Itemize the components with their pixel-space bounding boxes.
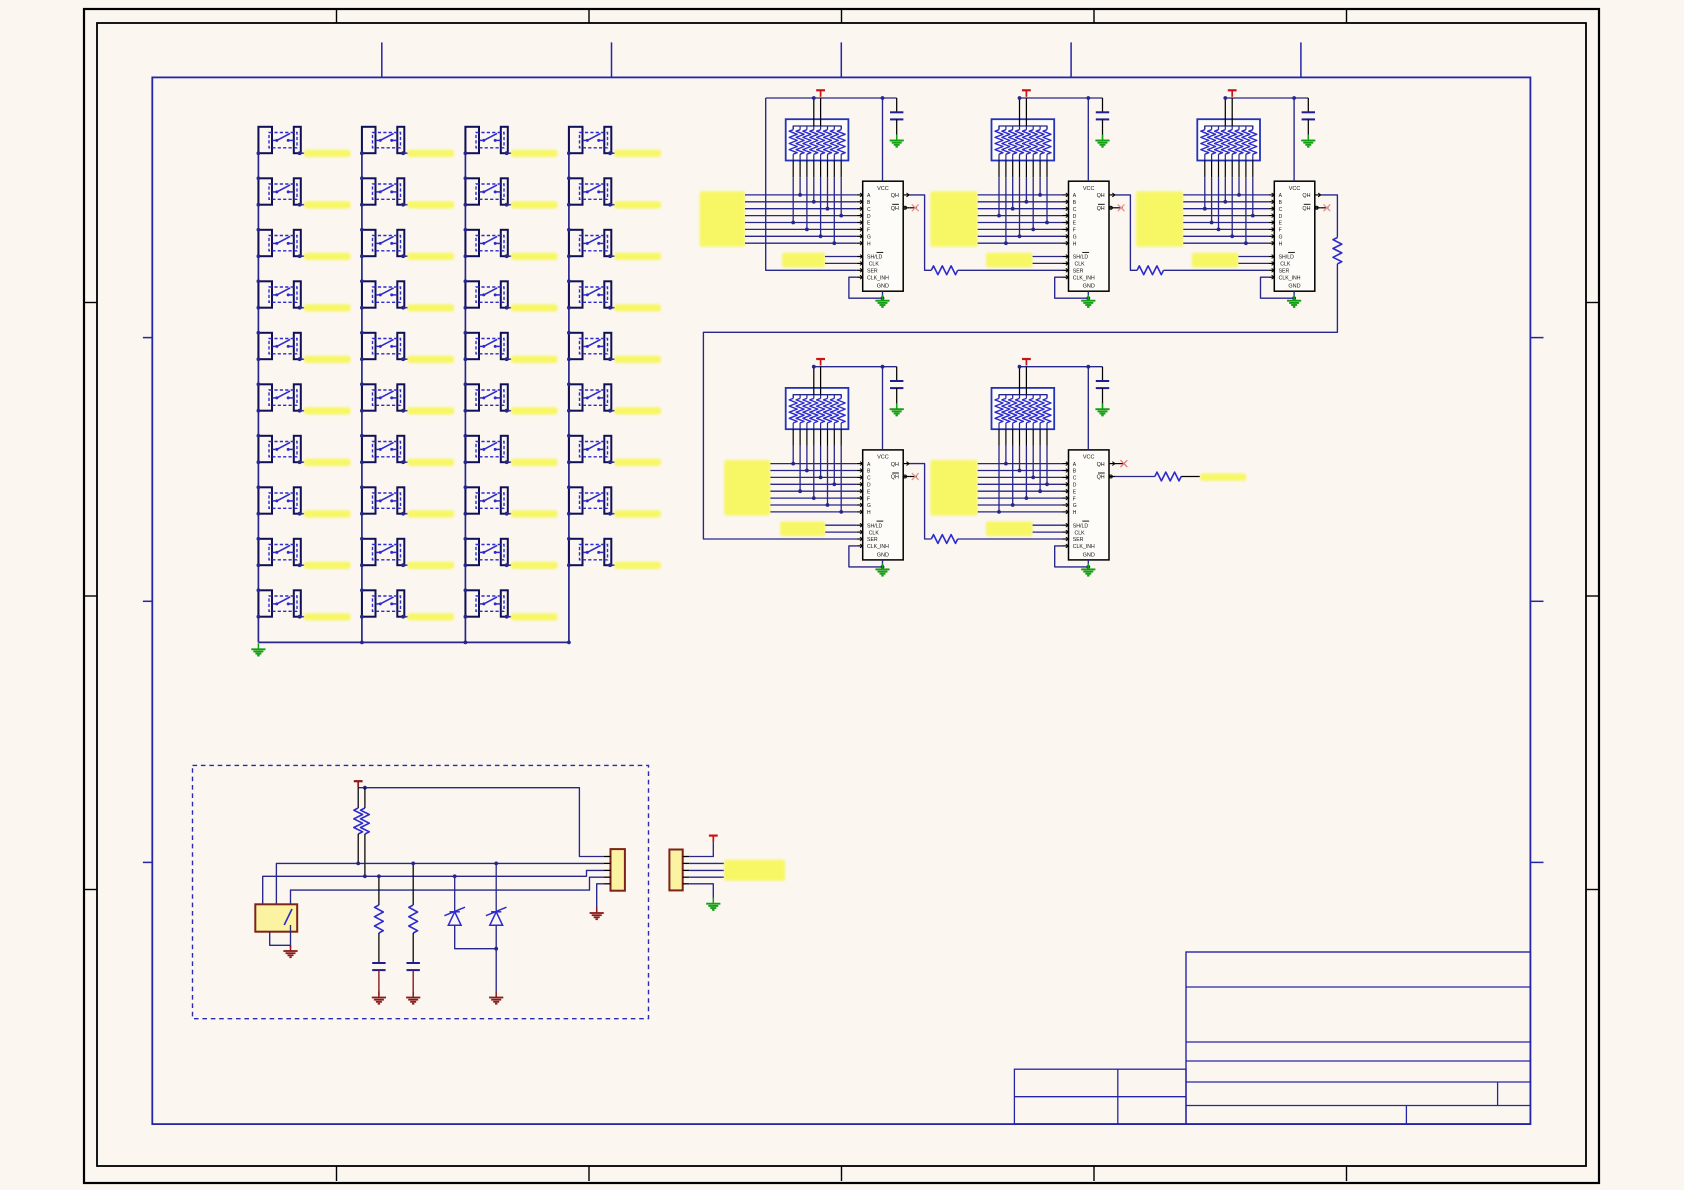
key switch S21 [465,127,507,153]
junction S23 column [464,228,468,258]
wire U5 CLK [1033,531,1063,533]
resistor R9 filter [409,863,418,963]
junction RN2 lead 7 [1038,193,1042,197]
zener D2 [486,863,507,925]
RN1 resistors [789,126,845,161]
ground for C2 [1095,135,1109,147]
VCC rail wire block 1 [766,97,897,99]
junction S14 column [360,279,364,309]
net label row9 col3 [511,562,558,569]
wire U1 QH to R1 [909,195,931,270]
key switch S34 [569,281,611,307]
svg-text:CLK: CLK [869,262,880,268]
wire S35 output [610,358,615,360]
junction D1 D2 anode [494,947,498,951]
key switch S17 [362,436,404,462]
J1 ground lead [596,909,598,912]
wire S21 output [507,152,512,154]
wire R5 to output label [1181,476,1200,478]
svg-text:QH: QH [891,193,899,199]
svg-text:CLK: CLK [869,530,880,536]
wire S14 output [403,307,408,309]
svg-text:C: C [1279,207,1283,213]
svg-text:CLK: CLK [1075,530,1086,536]
resistor R1 [931,266,957,275]
junction R7 bus2 [363,874,367,878]
U5 pin F [1063,496,1069,500]
U4 output labels QH QHbar [891,462,899,481]
top frame zone tick 3 [841,9,843,23]
junction RN1 lead 6 [826,207,830,211]
svg-text:SH/LD: SH/LD [867,255,883,261]
capacitor C4 [890,367,903,410]
junction S28 column [464,485,468,515]
wire S12 output [403,204,408,206]
junction RN5 lead 7 [1038,489,1042,493]
sheet top zone tick 5 [1300,42,1302,77]
resistor R6 pullup [354,788,363,864]
J1 ground wire [597,884,604,909]
power VCC J2 [709,836,718,843]
wire S9 output [300,564,305,566]
junction S34 output [608,306,612,310]
svg-text:QH: QH [891,475,899,481]
key switch S5 [258,333,300,359]
wire J2 clock [689,869,724,871]
U3 VCC pin wire [1293,98,1295,181]
U2 pin D [1063,214,1069,218]
junction S11 output [401,151,405,155]
capacitor C2 [1096,98,1109,141]
junction S9 output [298,563,302,567]
junction S32 column [567,176,571,206]
net label row5 col1 [304,356,351,363]
junction S10 column [257,588,261,618]
RN5 lead 1 wire [998,429,1000,512]
U1 pin CLK [857,262,863,266]
junction RN4 lead 5 [819,476,823,480]
wire S11 output [403,152,408,154]
RN2 lead 8 wire [1046,161,1048,223]
RN2 common bus [999,126,1047,129]
VCC rail wire block 3 [1225,97,1308,99]
svg-text:C: C [1073,476,1077,482]
U2 VCC junction [1086,96,1090,100]
net label row9 col1 [304,562,351,569]
net label row7 col1 [304,459,351,466]
junction R6 bus1 [356,862,360,866]
svg-text:GND: GND [1083,284,1095,290]
net label row4 col4 [615,304,662,311]
shift register U1 body [863,181,904,291]
net labels U4 inputs A-H [724,460,770,516]
U3 pin B [1268,200,1274,204]
net label row9 col4 [615,562,662,569]
key switch S28 [465,487,507,513]
wire U4 SH/LD [825,524,856,526]
U4 CLK_INH feedback wire [849,546,883,567]
junction RN4 lead 2 [798,489,802,493]
junction RN3 lead 4 [1223,200,1227,204]
junction S33 column [567,228,571,258]
junction RN4 lead 1 [791,462,795,466]
U1 pin labels SH/LD CLK SER CLK_INH [867,252,889,281]
wires U4 inputs A-H [770,464,856,512]
wire U1 CLK [825,262,857,264]
svg-text:F: F [867,228,870,234]
junction S27 column [464,434,468,464]
capacitor C6 [372,963,385,995]
junction S5 column [257,331,261,361]
wire S4 output [300,307,305,309]
net labels U1 SH/LD CLK [782,253,825,268]
wire S16 output [403,410,408,412]
top frame zone tick 1 [336,9,338,23]
net label row6 col3 [511,407,558,414]
SW1 bottom pins wire [270,932,291,946]
junction pullup R7 top [363,786,367,790]
U5 output labels QH QHbar [1097,462,1105,481]
junction S3 output [298,254,302,258]
U1 GND junction [881,296,885,300]
U4 pin F [857,496,863,500]
svg-text:H: H [1073,510,1077,516]
junction D1 bus2 [453,874,457,878]
RN4 lead 3 wire [806,429,808,470]
revision table [1014,1069,1186,1124]
RN1 lead 5 wire [820,161,822,237]
VCC rail wire block 5 [1020,366,1103,368]
wire S19 output [403,564,408,566]
title block row lines [1186,987,1530,1124]
resistor R8 filter [375,876,384,963]
wire D1 anode [455,925,497,948]
U1 pin labels A-H [867,193,871,247]
wire S3 output [300,255,305,257]
wire U3 SH/LD [1238,256,1268,258]
U1 pin SH/LD [857,255,863,259]
svg-text:SH/LD: SH/LD [1279,255,1295,261]
net label row7 col3 [511,459,558,466]
U2 pin C [1063,207,1069,211]
wire S5 output [300,358,305,360]
column 4 wire [568,127,570,643]
net label row3 col3 [511,253,558,260]
junction S36 output [608,409,612,413]
key switch S23 [465,230,507,256]
net labels U3 SH/LD CLK [1192,253,1239,268]
no-connect X U2 QHbar [1115,204,1125,211]
key switch S29 [465,539,507,565]
junction S32 output [608,203,612,207]
key switch S19 [362,539,404,565]
sheet top zone tick 1 [381,42,383,77]
ground J2 [706,898,720,910]
wire S33 output [610,255,615,257]
U5 VCC junction [1086,365,1090,369]
net label row10 col3 [511,613,558,620]
RN3 lead 1 wire [1204,161,1206,209]
net label row5 col2 [408,356,455,363]
key switch S32 [569,178,611,204]
svg-text:VCC: VCC [1083,455,1095,461]
svg-text:QH: QH [1302,193,1310,199]
junction RN4 lead 8 [839,510,843,514]
svg-text:C: C [867,207,871,213]
junction S12 output [401,203,405,207]
RN2 lead 1 wire [998,161,1000,216]
power VCC block 3 [1228,90,1237,97]
junction RN3 lead 7 [1244,241,1248,245]
wire S29 output [507,564,512,566]
U1 pin F [857,228,863,232]
junction S14 output [401,306,405,310]
ground for U4 [875,563,889,575]
junction S15 column [360,331,364,361]
wire S13 output [403,255,408,257]
net label row1 col1 [304,150,351,157]
ground J1 [590,907,604,919]
ground for C3 [1301,135,1315,147]
wire U1 SH/LD [825,256,857,258]
svg-text:CLK_INH: CLK_INH [1073,544,1095,550]
RN3 lead 4 wire [1224,161,1226,202]
RN4 lead 8 wire [840,429,842,512]
svg-text:CLK_INH: CLK_INH [1073,275,1095,281]
U2 GND junction [1086,296,1090,300]
RN1 lead 4 wire [813,161,815,202]
RN3 common feed [1225,98,1232,126]
svg-text:CLK_INH: CLK_INH [867,544,889,550]
junction RN4 lead 6 [826,503,830,507]
net label serial out [1200,474,1246,481]
junction S37 output [608,460,612,464]
junction S3 column [257,228,261,258]
svg-text:SER: SER [1073,269,1084,275]
sheet right zone tick 3 [1530,861,1543,863]
U3 pin labels SH/LD CLK SER CLK_INH [1279,252,1301,281]
junction S31 output [608,151,612,155]
U4 VCC junction [881,365,885,369]
svg-text:H: H [1073,241,1077,247]
no-connect X U1 QHbar [909,204,919,211]
key switch S14 [362,281,404,307]
resistor network RN1 box [786,119,849,160]
net labels U2 inputs A-H [930,191,977,247]
junction S17 column [360,434,364,464]
wire J2 VCC [689,842,713,856]
U2 pin B [1063,200,1069,204]
net label row2 col4 [615,201,662,208]
junction S22 column [464,176,468,206]
junction S34 column [567,279,571,309]
U5 pin CLK_INH [1063,544,1069,548]
U4 pin A [857,462,863,466]
power VCC block 2 [1022,90,1031,97]
bottom frame zone tick 1 [336,1166,338,1181]
wire S37 output [610,461,615,463]
junction RN1 lead 4 [812,200,816,204]
RN5 lead 5 wire [1025,429,1027,498]
svg-text:C: C [1073,207,1077,213]
key switch S35 [569,333,611,359]
net label row6 col4 [615,407,662,414]
bus2 clock wire [263,870,604,904]
wire S22 output [507,204,512,206]
junction S30 column [464,588,468,618]
shift register U3 body [1274,181,1315,291]
RN5 lead 3 wire [1012,429,1014,505]
svg-text:VCC: VCC [877,186,889,192]
U3 pin SH/LD [1268,255,1274,259]
U3 GND pin wire [1293,291,1295,298]
U5 pin SER [1063,537,1069,541]
U1 pin QHbar [903,206,909,209]
ground SW1 [283,945,297,957]
junction RN3 lead 8 [1251,214,1255,218]
left frame zone tick 1 [84,302,97,304]
junction RN1 lead 3 [805,228,809,232]
U2 pin CLK_INH [1063,275,1069,279]
RN1 common bus [793,126,841,129]
wire S31 output [610,152,615,154]
junction bus col4 [567,641,571,645]
key switch S25 [465,333,507,359]
U1 output labels QH QHbar [891,193,899,212]
VCC rail wire interface [358,788,604,857]
net label row4 col1 [304,304,351,311]
wire S27 output [507,461,512,463]
RN3 lead 6 wire [1238,161,1240,195]
key switch S27 [465,436,507,462]
svg-text:SER: SER [867,269,878,275]
U3 pin E [1268,221,1274,225]
U1 pin QH [903,193,909,197]
net label row3 col1 [304,253,351,260]
U2 VCC pin wire [1087,98,1089,181]
svg-text:D: D [867,483,871,489]
RN5 lead 2 wire [1005,429,1007,463]
resistor R4 [931,535,957,544]
bus3 switch wire [291,877,605,909]
junction S6 output [298,409,302,413]
junction S24 column [464,279,468,309]
U2 pin CLK [1063,262,1069,266]
sheet left zone tick 3 [143,861,152,863]
junction RN3 lead 6 [1237,193,1241,197]
junction S30 output [505,615,509,619]
RN1 feed junction [812,96,816,100]
ground D2 [489,992,503,1004]
net label row3 col4 [615,253,662,260]
RN1 lead 6 wire [827,161,829,209]
U4 pin labels SH/LD CLK SER CLK_INH [867,521,889,550]
svg-text:F: F [867,496,870,502]
junction S12 column [360,176,364,206]
junction S2 output [298,203,302,207]
svg-text:D: D [1073,483,1077,489]
svg-text:SER: SER [867,537,878,543]
junction RN5 lead 5 [1025,496,1029,500]
U4 pin CLK_INH [857,544,863,548]
top frame zone tick 2 [588,9,590,23]
svg-text:QH: QH [1097,206,1105,212]
RN5 lead 4 wire [1019,429,1021,470]
U5 CLK_INH feedback wire [1055,546,1089,567]
junction S1 output [298,151,302,155]
junction RN2 lead 1 [997,214,1001,218]
junction S16 output [401,409,405,413]
wire S32 output [610,204,615,206]
resistor network RN3 box [1197,119,1260,160]
svg-text:CLK_INH: CLK_INH [1279,275,1301,281]
svg-text:QH: QH [891,462,899,468]
key switch S11 [362,127,404,153]
wire S30 output [507,616,512,618]
RN4 lead 4 wire [813,429,815,498]
svg-text:C: C [867,476,871,482]
wires U3 inputs A-H [1183,195,1268,243]
RN4 common feed [814,367,821,395]
U1 pin G [857,234,863,238]
junction S31 column [567,151,571,155]
net label row10 col1 [304,613,351,620]
no-connect X U5 QH [1115,460,1127,467]
U4 pin D [857,482,863,486]
key switch S13 [362,230,404,256]
wire S36 output [610,410,615,412]
left frame zone tick 3 [84,889,97,891]
key switch S24 [465,281,507,307]
capacitor C3 [1302,98,1315,141]
U4 pin CLK [857,530,863,534]
U5 pin QHbar [1109,475,1115,478]
junction S1 column [257,151,261,155]
RN3 lead 8 wire [1252,161,1254,216]
sheet top zone tick 4 [1070,42,1072,77]
resistor network RN2 box [992,119,1055,160]
key switch S6 [258,384,300,410]
net label row7 col4 [615,459,662,466]
junction RN5 lead 4 [1018,469,1022,473]
U1 pin H [857,241,863,245]
junction RN5 lead 2 [1004,462,1008,466]
key switch S26 [465,384,507,410]
svg-text:D: D [1279,214,1283,220]
U5 VCC pin wire [1087,367,1089,450]
junction S20 output [401,615,405,619]
svg-text:QH: QH [1097,475,1105,481]
shift register U2 body [1069,181,1110,291]
junction S26 output [505,409,509,413]
svg-text:F: F [1073,496,1076,502]
RN2 lead 4 wire [1019,161,1021,237]
sheet right zone tick 1 [1530,337,1543,339]
column 2 wire [361,127,363,643]
U1 GND pin wire [882,291,884,298]
resistor network RN4 box [786,388,849,429]
junction S16 column [360,382,364,412]
net label row2 col3 [511,201,558,208]
key switch S2 [258,178,300,204]
U1 pin CLK_INH [857,275,863,279]
RN3 feed junction [1223,96,1227,100]
svg-text:QH: QH [1097,193,1105,199]
svg-text:G: G [1279,235,1283,241]
RN2 lead 3 wire [1012,161,1014,209]
RN5 common feed [1020,367,1027,395]
net label row2 col1 [304,201,351,208]
